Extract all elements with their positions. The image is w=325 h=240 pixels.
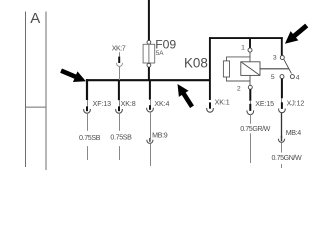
svg-text:4: 4 (296, 75, 300, 82)
wire (coil bottom to pin 2) (249, 75, 251, 85)
relay K08 box (right stub down to pin 3) (281, 37, 283, 55)
pin 2 terminal (248, 85, 252, 89)
wire label 0.75GR/W (240, 124, 271, 134)
svg-text:5: 5 (271, 74, 275, 81)
wire (bus left corner down-leg) (86, 79, 88, 100)
wire (below MB:9) (150, 144, 152, 166)
wire (box top to pin 1) (249, 39, 251, 48)
wire (below XF:13, 0.75SB) (87, 113, 89, 160)
svg-text:0.75GR/W: 0.75GR/W (240, 125, 270, 133)
svg-text:1: 1 (241, 45, 245, 52)
connector XK:8 (thin lead, pin and socket cup) (116, 100, 123, 113)
pin 3 terminal (280, 56, 284, 60)
pointer arrow at box lower-left (173, 81, 197, 110)
svg-text:A: A (30, 10, 40, 27)
resistor (parallel to coil) (223, 61, 229, 77)
connector XK:7 (lead, pin above bus) (119, 52, 121, 57)
relay K08 box (top edge) (209, 37, 283, 39)
ground connector MB:9 (pin and socket cup) (147, 138, 153, 143)
pointer arrow at box top-right corner (281, 21, 311, 49)
wire (below MB:4, 0.75GN/W) (281, 143, 283, 168)
wire (XK:8 stub below bus) (118, 81, 120, 100)
wire (resistor bottom link) (227, 77, 251, 81)
svg-text:MB:4: MB:4 (286, 129, 302, 137)
wire (below XE:15, 0.75GR/W) (250, 114, 252, 163)
switch arm (pin 3 to pin 4) (284, 59, 292, 73)
wire (below XK:8, 0.75SB) (119, 113, 121, 160)
svg-text:3: 3 (273, 54, 277, 61)
wire (pin 2 stub down) (249, 89, 251, 101)
wire (left rail rung) (26, 106, 47, 108)
pin 4 terminal (290, 75, 294, 79)
wire bus (main horizontal feed) (86, 79, 209, 81)
svg-text:2: 2 (237, 86, 241, 93)
fuse F09 (143, 40, 155, 67)
relay K08 box (left edge) (209, 37, 211, 100)
connector XK:1 (thin lead, pin and socket cup) (207, 102, 214, 112)
wire (pin 1 to coil) (249, 52, 251, 62)
svg-text:0.75SB: 0.75SB (110, 133, 132, 141)
pin 5 terminal (280, 75, 284, 79)
wire label 0.75SB (left) (76, 131, 101, 146)
wire (left rail, outer vertical line) (25, 12, 27, 168)
svg-text:XF:13: XF:13 (93, 100, 112, 108)
svg-text:XK:8: XK:8 (121, 100, 136, 108)
pointer arrow at bus corner (59, 65, 88, 86)
connector XE:15 socket cup (250, 101, 252, 105)
svg-text:MB:9: MB:9 (152, 131, 168, 139)
pin 1 terminal (248, 48, 252, 52)
wire (supply feed into fuse from top) (148, 0, 150, 41)
wire (XK:4 stub below bus) (149, 81, 151, 100)
connector XJ:12 socket cup (281, 98, 283, 103)
connector XK:7 socket cup (117, 63, 123, 67)
svg-text:5A: 5A (156, 50, 165, 57)
wire (resistor top link) (227, 57, 251, 61)
wire (coil armature link to switch) (260, 68, 289, 70)
svg-text:XJ:12: XJ:12 (287, 99, 305, 107)
node A (side rail label) (30, 10, 40, 27)
svg-text:XK:4: XK:4 (154, 100, 169, 108)
svg-text:XE:15: XE:15 (255, 100, 274, 108)
connector XK:4 (thin lead, pin and socket cup) (147, 99, 154, 112)
wire (XK:4 down to ground point) (150, 112, 152, 139)
svg-text:XK:7: XK:7 (112, 45, 126, 53)
wire label 0.75SB (second) (109, 131, 133, 146)
relay coil K08 (241, 62, 260, 76)
svg-text:0.75SB: 0.75SB (79, 134, 101, 142)
wire (pin 5 stub down) (281, 79, 283, 99)
wire (XK:7 to bus) (119, 67, 121, 80)
wire (left rail, inner vertical line) (45, 12, 47, 171)
svg-text:0.75GN/W: 0.75GN/W (272, 154, 302, 162)
connector XF:13 (thin lead, pin and socket cup) (84, 100, 91, 113)
wire (fuse bottom to bus) (148, 67, 150, 80)
svg-text:XK:1: XK:1 (215, 98, 230, 106)
ground connector MB:4 (pin and socket cup) (279, 136, 285, 143)
wire label 0.75GN/W (271, 153, 302, 164)
svg-text:K08: K08 (184, 55, 208, 70)
wire (XJ:12 down to ground point MB:4) (281, 113, 283, 138)
